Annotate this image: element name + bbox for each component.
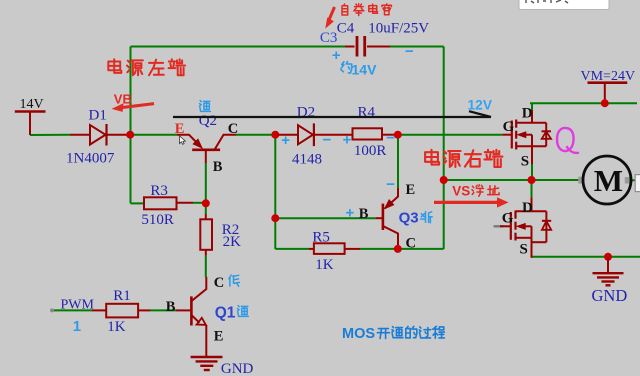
power port VM=24V xyxy=(588,83,628,104)
wire: vertical x=398 R4 node down to Q3 emitter xyxy=(397,135,399,188)
motor M xyxy=(578,156,631,204)
wire: R5 right wire to Q3 collector node xyxy=(360,248,398,250)
ground symbol GND (Q1) xyxy=(191,357,223,370)
junction dot S/D node xyxy=(528,176,536,184)
gray stub at lower gate xyxy=(494,225,504,227)
svg-text:D: D xyxy=(522,200,533,216)
svg-text:B: B xyxy=(213,159,223,175)
svg-text:PWM: PWM xyxy=(61,298,95,313)
junction dot VS node xyxy=(440,176,448,184)
label tong (on) above Q2 xyxy=(200,101,211,112)
junction dot R4 node xyxy=(394,131,402,139)
red text: dianyuan zuo duan (power left end) xyxy=(108,59,121,73)
svg-text:C3: C3 xyxy=(320,30,338,46)
wire: upper MOSFET source to VS node xyxy=(531,164,533,180)
red arrow to C4 xyxy=(325,7,334,29)
svg-text:B: B xyxy=(359,206,369,222)
junction dot VM rail xyxy=(601,99,609,107)
svg-text:−: − xyxy=(386,130,395,147)
wire: R1 to Q1 base xyxy=(150,309,176,311)
svg-text:14V: 14V xyxy=(20,97,44,112)
junction dot Q2 collector node xyxy=(271,131,279,139)
svg-text:1K: 1K xyxy=(107,319,126,335)
svg-text:510R: 510R xyxy=(141,212,174,228)
wire: vertical left rail x=130.5 top wire to R3 xyxy=(130,47,132,204)
capacitor C4 xyxy=(345,36,390,57)
svg-text:+: + xyxy=(281,132,290,149)
svg-text:D1: D1 xyxy=(89,107,107,123)
resistor R5 xyxy=(309,243,360,254)
svg-text:C: C xyxy=(228,121,238,137)
wire: top bootstrap wire right segment xyxy=(390,46,444,48)
wire: Q2 collector to node at x=275.3 xyxy=(236,134,275,136)
svg-text:E: E xyxy=(214,328,224,344)
svg-text:+: + xyxy=(343,131,352,148)
mouse cursor xyxy=(180,136,186,144)
svg-text:4148: 4148 xyxy=(292,152,322,168)
transistor Q1 (NPN) xyxy=(176,277,207,356)
junction dot Q3 base node xyxy=(271,214,279,222)
resistor R2 xyxy=(200,214,212,255)
svg-text:D: D xyxy=(522,106,533,122)
white part box right edge xyxy=(635,175,640,192)
svg-text:+: + xyxy=(332,47,341,64)
svg-text:C4: C4 xyxy=(337,20,355,36)
svg-text:−: − xyxy=(405,43,414,60)
svg-text:1K: 1K xyxy=(315,257,334,273)
resistor R4 xyxy=(353,128,397,139)
svg-text:−: − xyxy=(386,176,395,193)
wire: upper MOSFET drain to VM rail xyxy=(531,103,533,110)
MOSFET upper (high side) xyxy=(502,110,551,164)
junction dot Q3 collector node xyxy=(394,245,402,253)
wire: 14V lead to D1 xyxy=(30,134,70,136)
wire: VS wire to motor xyxy=(444,179,579,181)
svg-text:C: C xyxy=(214,275,224,291)
black annotation line with arrow (12V drive path) xyxy=(173,111,491,117)
wire: Q3 collector node to x=443.7 xyxy=(398,248,444,250)
svg-text:1N4007: 1N4007 xyxy=(66,151,115,167)
svg-text:Q2: Q2 xyxy=(199,113,217,129)
wire: PWM to R1 xyxy=(52,309,92,311)
transistor Q3 (PNP) xyxy=(375,188,398,246)
label tong (on) Q1 xyxy=(238,306,249,317)
wire: R3 corner xyxy=(131,202,145,204)
svg-text:R5: R5 xyxy=(312,229,330,245)
transistor Q2 (PNP) xyxy=(177,135,236,163)
junction dot GND node xyxy=(604,253,612,261)
wire: Q3 base wire xyxy=(275,217,375,219)
wire: node to R2 top xyxy=(205,204,207,215)
MOSFET lower (low side) xyxy=(500,197,551,257)
svg-text:R1: R1 xyxy=(113,288,131,304)
magenta handwritten Q xyxy=(557,128,578,153)
svg-text:E: E xyxy=(406,182,416,198)
red arrow to VB node xyxy=(112,103,155,112)
svg-text:C: C xyxy=(406,235,416,251)
svg-text:Q3: Q3 xyxy=(399,209,419,226)
svg-text:+: + xyxy=(346,204,355,221)
diode D1 xyxy=(70,124,128,146)
svg-text:S: S xyxy=(520,242,528,258)
tooltip box top right xyxy=(519,0,609,10)
red text: dianyuan you duan (power right end) xyxy=(425,150,439,165)
wire: R3 to node xyxy=(193,202,206,204)
svg-text:B: B xyxy=(166,299,176,315)
resistor R1 xyxy=(92,304,150,318)
junction dot R3/R2/Q2 node xyxy=(202,199,210,207)
wire: vertical x=443.7 from top wire down to Q3 collector wire xyxy=(443,47,445,250)
svg-text:2K: 2K xyxy=(223,234,242,250)
svg-text:VS: VS xyxy=(452,184,470,199)
svg-text:G: G xyxy=(502,211,514,227)
wire: R2 bottom to Q1 collector xyxy=(205,255,207,277)
svg-text:10uF/25V: 10uF/25V xyxy=(368,20,429,36)
label di (low) at Q1 collector xyxy=(229,275,239,286)
red arrow VS xyxy=(434,197,509,207)
wire: lower MOSFET source wire to GND xyxy=(532,256,640,258)
svg-text:VM=24V: VM=24V xyxy=(581,69,636,84)
svg-text:GND: GND xyxy=(221,361,254,376)
diode D2 xyxy=(277,123,353,146)
svg-text:14V: 14V xyxy=(352,61,378,77)
wire: motor right stub xyxy=(630,179,636,181)
wire: R4 output to upper MOSFET gate xyxy=(398,134,502,136)
wire: top bootstrap wire left segment xyxy=(131,46,346,48)
svg-text:G: G xyxy=(503,119,515,135)
wire: D1 junction to Q2 emitter xyxy=(131,134,178,136)
svg-text:MOS: MOS xyxy=(342,326,375,342)
ground symbol GND (right) xyxy=(593,257,624,286)
red text: zi ju dian rong (bootstrap capacitor) xyxy=(342,4,348,15)
label yue14V xyxy=(341,62,352,73)
junction dot D1 node xyxy=(126,131,134,139)
svg-text:E: E xyxy=(175,121,185,137)
pin dot PWM xyxy=(50,308,54,312)
svg-text:100R: 100R xyxy=(354,143,387,159)
svg-text:M: M xyxy=(594,163,623,198)
svg-text:1: 1 xyxy=(73,318,81,335)
wire: R5 left wire xyxy=(275,248,309,250)
svg-text:12V: 12V xyxy=(468,97,493,112)
power port 14V xyxy=(15,112,46,136)
wire: VM rail xyxy=(530,102,637,104)
resistor R3 xyxy=(144,197,193,209)
svg-text:GND: GND xyxy=(592,286,628,305)
svg-text:S: S xyxy=(521,154,529,170)
wire: VS node down to lower MOSFET drain xyxy=(531,180,533,197)
wire: vertical x=275.3 from main wire to R5 corner xyxy=(274,135,276,249)
label duan (off) Q3 xyxy=(421,212,432,223)
svg-text:Q1: Q1 xyxy=(215,305,236,322)
svg-text:−: − xyxy=(323,131,332,148)
wire: Q2 base down to R3/R2 node xyxy=(205,163,207,204)
svg-text:R3: R3 xyxy=(150,183,168,199)
